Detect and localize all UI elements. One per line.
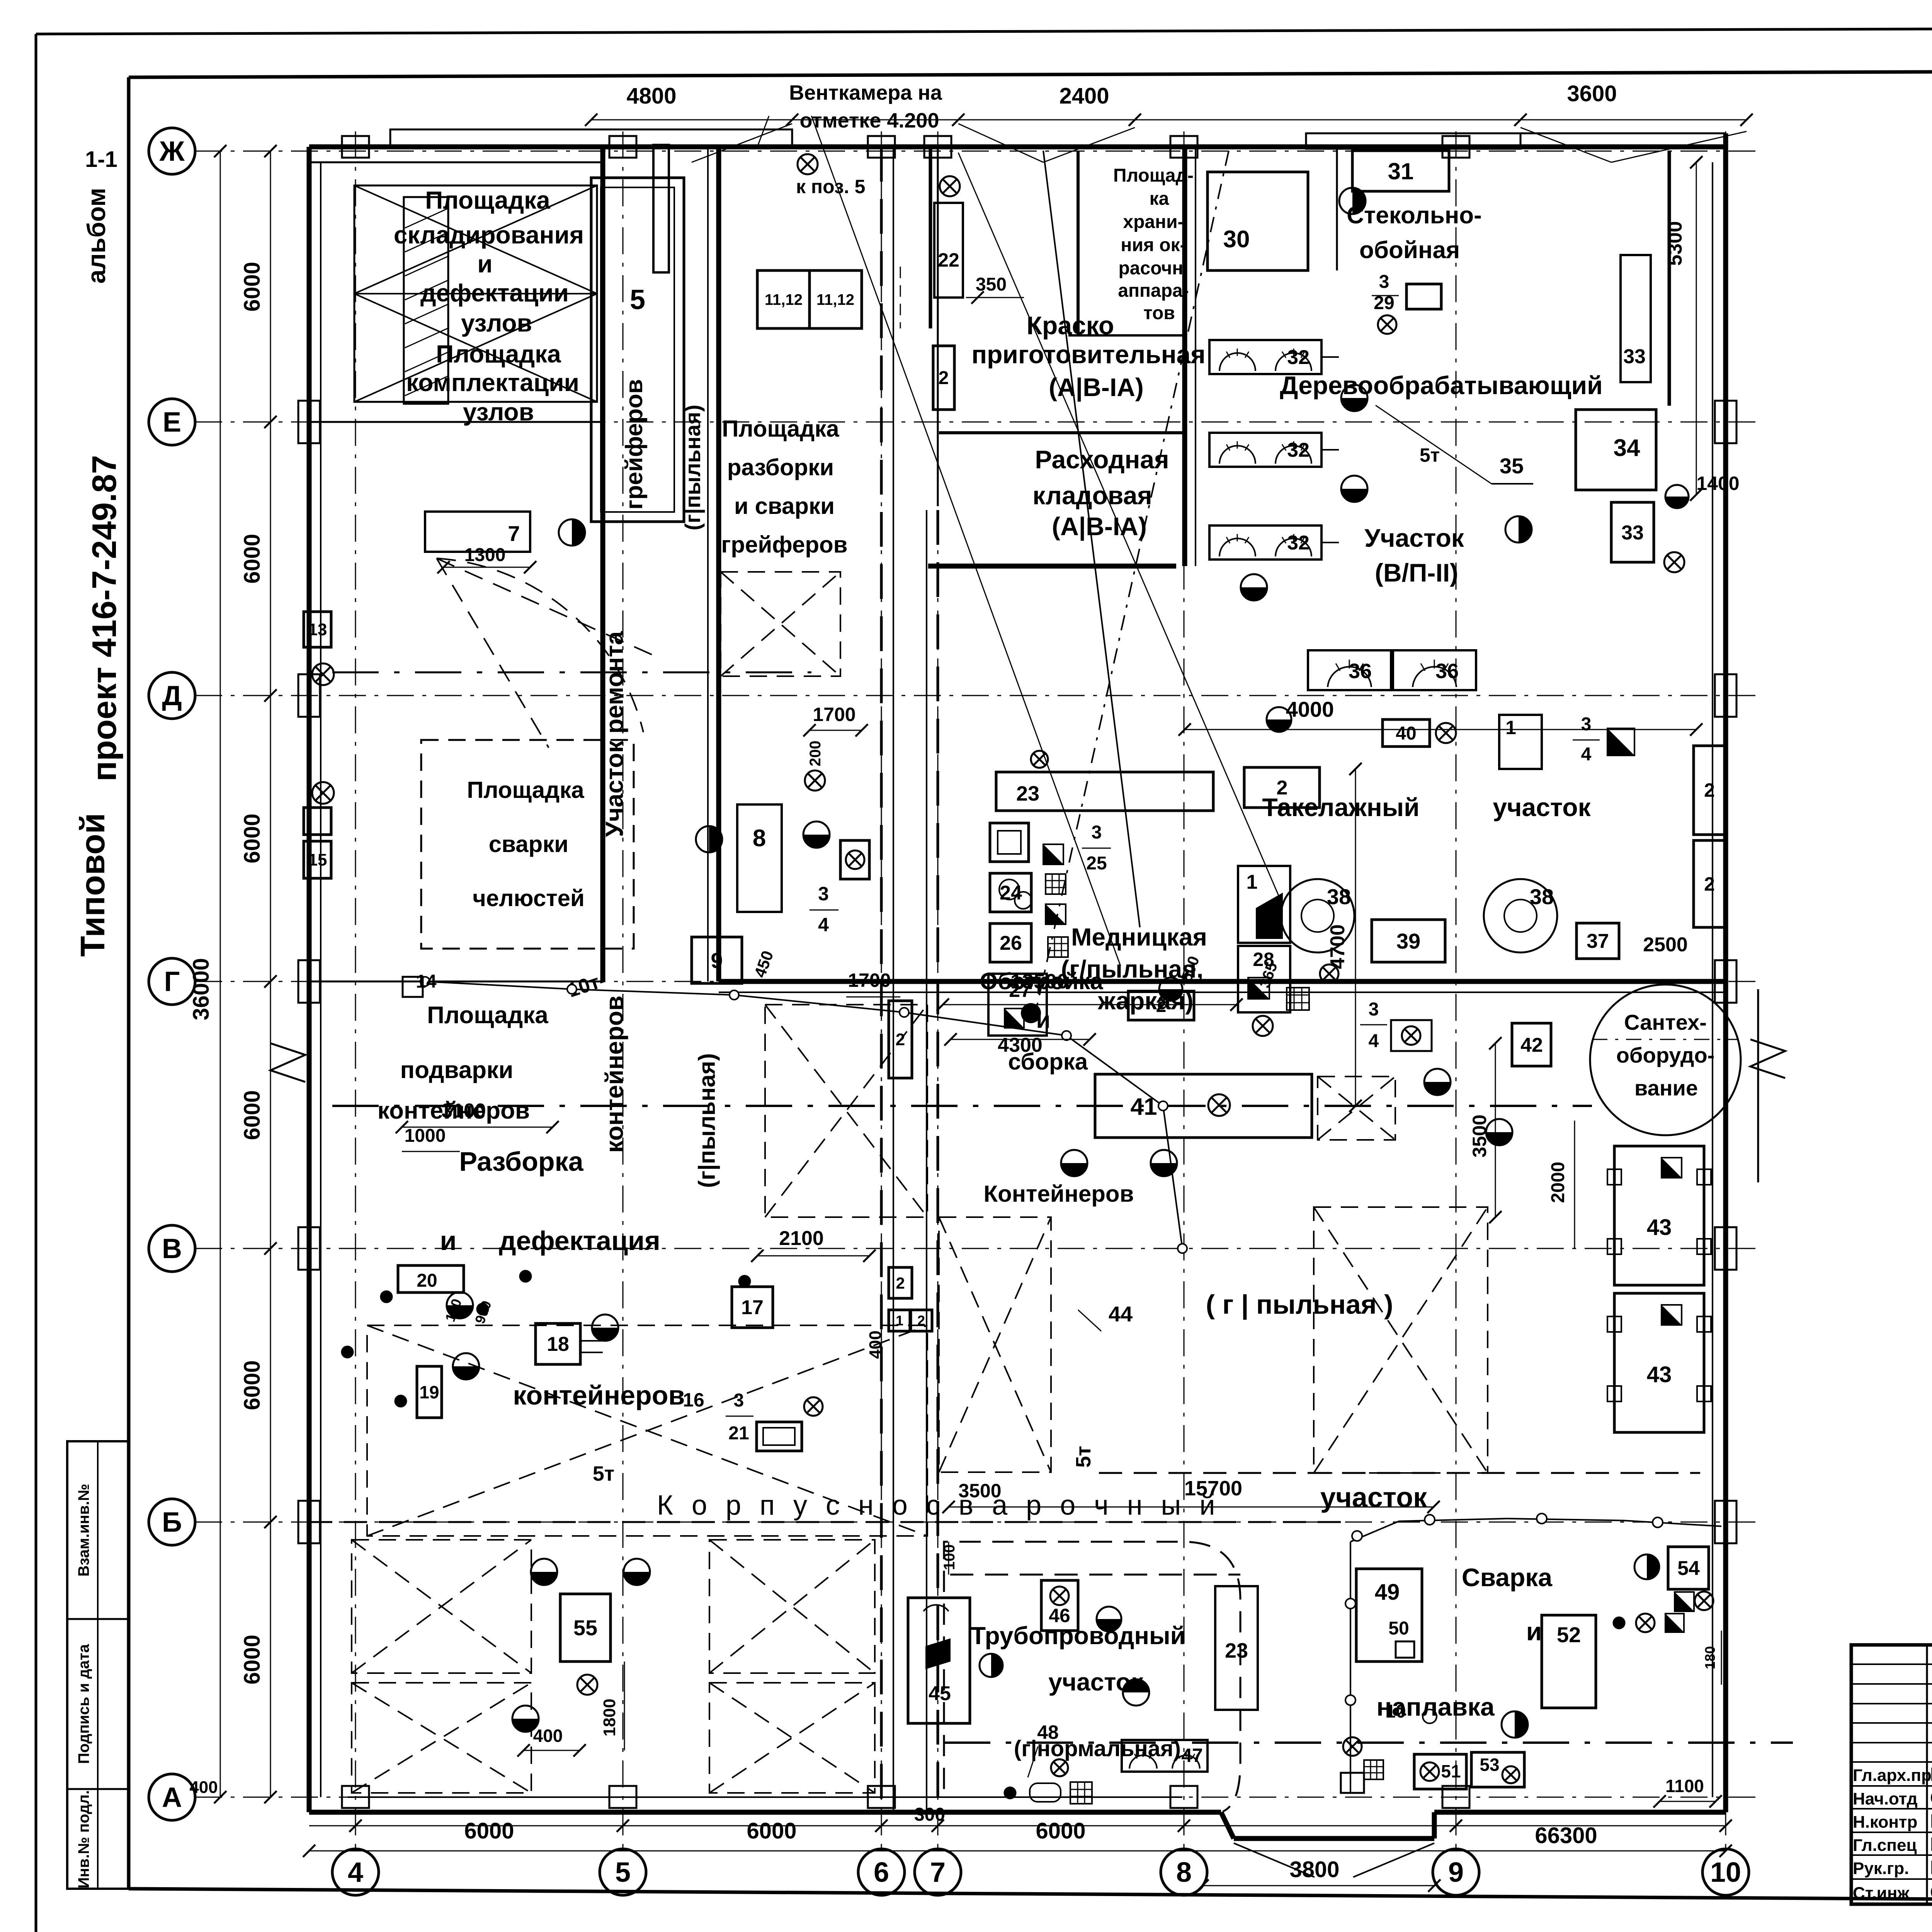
svg-text:44: 44 bbox=[1109, 1302, 1133, 1326]
svg-text:36: 36 bbox=[1435, 660, 1459, 683]
svg-text:23: 23 bbox=[1016, 782, 1039, 805]
svg-text:10: 10 bbox=[1385, 1701, 1406, 1722]
svg-text:3: 3 bbox=[734, 1390, 744, 1411]
svg-text:15: 15 bbox=[308, 850, 327, 869]
svg-text:2: 2 bbox=[939, 368, 949, 388]
svg-text:узлов: узлов bbox=[461, 309, 532, 337]
svg-text:9: 9 bbox=[1448, 1857, 1464, 1888]
svg-text:(А|В-IА): (А|В-IА) bbox=[1049, 373, 1144, 402]
svg-text:Г: Г bbox=[164, 966, 180, 997]
svg-text:и сварки: и сварки bbox=[734, 493, 835, 519]
svg-text:Краско: Краско bbox=[1027, 311, 1114, 340]
svg-text:6000: 6000 bbox=[240, 813, 265, 863]
svg-text:4: 4 bbox=[348, 1857, 363, 1888]
svg-text:1700: 1700 bbox=[813, 704, 855, 725]
svg-text:Вожжаев: Вожжаев bbox=[1930, 1857, 1932, 1878]
svg-text:1: 1 bbox=[1505, 717, 1516, 738]
svg-text:4: 4 bbox=[1369, 1031, 1379, 1051]
svg-text:Ст.инж: Ст.инж bbox=[1853, 1884, 1910, 1903]
svg-text:5: 5 bbox=[630, 284, 645, 315]
svg-text:6: 6 bbox=[874, 1857, 889, 1888]
svg-text:сварки: сварки bbox=[489, 831, 568, 857]
svg-text:200: 200 bbox=[807, 741, 824, 767]
svg-text:Площадка: Площадка bbox=[436, 340, 561, 368]
svg-text:(г|пыльная): (г|пыльная) bbox=[694, 1053, 720, 1188]
svg-text:1000: 1000 bbox=[405, 1126, 446, 1146]
svg-text:и: и bbox=[440, 1226, 456, 1256]
svg-text:Павлов: Павлов bbox=[1930, 1833, 1932, 1855]
svg-text:9: 9 bbox=[711, 948, 723, 973]
svg-text:7: 7 bbox=[508, 521, 520, 546]
svg-text:и: и bbox=[477, 250, 492, 278]
svg-text:2400: 2400 bbox=[1059, 83, 1109, 109]
svg-text:33: 33 bbox=[1623, 345, 1646, 368]
svg-text:53: 53 bbox=[1480, 1755, 1499, 1775]
svg-text:проект 416-7-249.87: проект 416-7-249.87 bbox=[85, 455, 123, 782]
svg-text:обойная: обойная bbox=[1359, 237, 1460, 264]
svg-text:4: 4 bbox=[818, 914, 829, 935]
svg-text:47: 47 bbox=[1181, 1745, 1203, 1766]
svg-text:41: 41 bbox=[1131, 1094, 1157, 1120]
svg-text:49: 49 bbox=[1375, 1580, 1400, 1605]
svg-text:38: 38 bbox=[1530, 884, 1554, 909]
svg-text:32: 32 bbox=[1287, 346, 1310, 369]
svg-text:Гл.спец: Гл.спец bbox=[1853, 1836, 1917, 1855]
svg-text:26: 26 bbox=[1000, 932, 1022, 954]
svg-text:1100: 1100 bbox=[1665, 1776, 1704, 1796]
svg-text:4: 4 bbox=[1581, 744, 1592, 765]
svg-text:43: 43 bbox=[1647, 1362, 1672, 1387]
svg-text:3: 3 bbox=[1092, 822, 1102, 843]
svg-text:Нач.отд: Нач.отд bbox=[1853, 1789, 1918, 1808]
svg-text:2: 2 bbox=[1156, 996, 1167, 1016]
svg-text:5т: 5т bbox=[1420, 444, 1440, 466]
svg-text:37: 37 bbox=[1587, 930, 1609, 952]
svg-text:14: 14 bbox=[416, 971, 437, 992]
svg-text:25: 25 bbox=[1086, 853, 1107, 874]
svg-text:храни-: храни- bbox=[1123, 212, 1184, 232]
svg-text:13: 13 bbox=[308, 620, 327, 639]
svg-text:2: 2 bbox=[917, 1313, 925, 1328]
svg-text:38: 38 bbox=[1327, 884, 1351, 909]
svg-text:7: 7 bbox=[930, 1857, 946, 1888]
svg-text:2: 2 bbox=[896, 1030, 905, 1049]
svg-text:19: 19 bbox=[419, 1382, 439, 1402]
svg-text:(А|В-IА): (А|В-IА) bbox=[1052, 512, 1147, 541]
svg-text:челюстей: челюстей bbox=[473, 885, 585, 911]
svg-text:36000: 36000 bbox=[189, 958, 214, 1020]
svg-text:21: 21 bbox=[728, 1423, 749, 1444]
svg-text:1800: 1800 bbox=[600, 1699, 619, 1736]
svg-text:Площад-: Площад- bbox=[1113, 165, 1194, 186]
svg-text:42: 42 bbox=[1520, 1034, 1543, 1056]
svg-text:Контейнеров: Контейнеров bbox=[984, 1181, 1134, 1207]
svg-text:6000: 6000 bbox=[240, 262, 265, 311]
svg-text:Б: Б bbox=[162, 1507, 182, 1538]
svg-text:Козьяков: Козьяков bbox=[1930, 1764, 1932, 1785]
svg-text:расочн.: расочн. bbox=[1118, 258, 1188, 279]
svg-text:4700: 4700 bbox=[1327, 924, 1349, 969]
svg-text:6000: 6000 bbox=[240, 534, 265, 583]
svg-text:11,12: 11,12 bbox=[765, 291, 803, 308]
svg-text:6000: 6000 bbox=[240, 1090, 265, 1140]
svg-text:48: 48 bbox=[1037, 1721, 1059, 1743]
svg-text:66300: 66300 bbox=[1535, 1823, 1597, 1848]
svg-text:1: 1 bbox=[1247, 871, 1258, 893]
svg-text:К о р п у с н о с в а р о ч н: К о р п у с н о с в а р о ч н ы й bbox=[657, 1490, 1221, 1521]
svg-text:Соколова: Соколова bbox=[1930, 1881, 1932, 1903]
svg-text:20: 20 bbox=[417, 1270, 437, 1291]
svg-text:50: 50 bbox=[1388, 1618, 1409, 1639]
svg-text:отметке 4.200: отметке 4.200 bbox=[800, 109, 939, 132]
svg-text:4300: 4300 bbox=[998, 1034, 1043, 1056]
svg-text:46: 46 bbox=[1049, 1605, 1070, 1626]
svg-text:Разборка: Разборка bbox=[459, 1146, 583, 1177]
svg-text:2: 2 bbox=[1704, 779, 1715, 801]
svg-text:4800: 4800 bbox=[626, 83, 676, 109]
svg-text:3: 3 bbox=[1379, 272, 1389, 292]
svg-text:2100: 2100 bbox=[779, 1227, 824, 1250]
svg-text:Гл.арх.пр: Гл.арх.пр bbox=[1853, 1766, 1932, 1785]
svg-text:35: 35 bbox=[1500, 454, 1524, 478]
svg-text:3100: 3100 bbox=[441, 1100, 486, 1122]
svg-text:10: 10 bbox=[1710, 1857, 1741, 1888]
svg-text:грейферов: грейферов bbox=[721, 532, 847, 558]
svg-text:( г | пыльная ): ( г | пыльная ) bbox=[1206, 1289, 1393, 1320]
svg-text:(В/П-II): (В/П-II) bbox=[1375, 558, 1458, 587]
svg-text:5300: 5300 bbox=[1664, 221, 1686, 266]
svg-text:23: 23 bbox=[1225, 1639, 1248, 1662]
svg-text:Участок: Участок bbox=[1364, 524, 1464, 552]
svg-text:31: 31 bbox=[1388, 158, 1414, 184]
svg-text:22: 22 bbox=[938, 249, 959, 271]
svg-text:8: 8 bbox=[753, 825, 766, 852]
svg-text:52: 52 bbox=[1557, 1622, 1581, 1647]
svg-text:Сысоев: Сысоев bbox=[1930, 1787, 1932, 1809]
svg-text:4000: 4000 bbox=[1286, 697, 1334, 721]
svg-text:контейнеров: контейнеров bbox=[513, 1380, 685, 1410]
svg-text:400: 400 bbox=[533, 1726, 563, 1746]
svg-text:грейферов: грейферов bbox=[621, 379, 648, 510]
svg-text:3: 3 bbox=[1581, 714, 1592, 735]
svg-text:подварки: подварки bbox=[400, 1057, 514, 1083]
svg-text:6000: 6000 bbox=[464, 1818, 514, 1844]
svg-text:55: 55 bbox=[573, 1616, 597, 1640]
svg-text:3500: 3500 bbox=[1469, 1114, 1490, 1157]
svg-text:приготовительная: приготовительная bbox=[971, 340, 1206, 369]
svg-text:участок: участок bbox=[1320, 1482, 1427, 1513]
svg-text:контейнеров: контейнеров bbox=[600, 996, 628, 1153]
svg-text:Сантех-: Сантех- bbox=[1624, 1010, 1707, 1034]
svg-text:5т: 5т bbox=[593, 1462, 614, 1485]
svg-text:2: 2 bbox=[896, 1274, 905, 1292]
svg-text:350: 350 bbox=[976, 274, 1007, 295]
svg-text:36: 36 bbox=[1349, 660, 1372, 683]
svg-text:Типовой: Типовой bbox=[73, 813, 112, 957]
svg-text:29: 29 bbox=[1374, 293, 1394, 313]
svg-text:2500: 2500 bbox=[1643, 934, 1688, 956]
svg-text:18: 18 bbox=[547, 1333, 569, 1355]
svg-text:34: 34 bbox=[1614, 435, 1640, 461]
svg-text:Н.контр: Н.контр bbox=[1853, 1813, 1917, 1832]
svg-text:тов: тов bbox=[1143, 303, 1175, 323]
svg-text:1700: 1700 bbox=[848, 969, 891, 991]
svg-text:кладовая: кладовая bbox=[1032, 481, 1152, 510]
svg-text:Взам.инв.№: Взам.инв.№ bbox=[75, 1484, 92, 1577]
svg-text:3: 3 bbox=[1369, 999, 1379, 1020]
svg-text:54: 54 bbox=[1677, 1557, 1700, 1580]
svg-text:участок: участок bbox=[1493, 793, 1591, 821]
svg-text:30: 30 bbox=[1223, 226, 1250, 253]
svg-text:51: 51 bbox=[1441, 1761, 1461, 1781]
svg-text:А: А bbox=[162, 1782, 182, 1813]
svg-text:33: 33 bbox=[1621, 522, 1644, 544]
svg-text:6000: 6000 bbox=[240, 1360, 265, 1410]
svg-text:Площадка: Площадка bbox=[427, 1002, 548, 1029]
svg-text:2000: 2000 bbox=[1548, 1162, 1568, 1203]
svg-text:ния ок-: ния ок- bbox=[1121, 235, 1186, 255]
svg-text:Деревообрабатывающий: Деревообрабатывающий bbox=[1280, 371, 1602, 400]
svg-text:45: 45 bbox=[929, 1682, 951, 1705]
svg-text:11,12: 11,12 bbox=[816, 291, 854, 308]
svg-text:разборки: разборки bbox=[727, 454, 834, 480]
svg-text:Инв.№ подл.: Инв.№ подл. bbox=[75, 1790, 92, 1888]
svg-text:1400: 1400 bbox=[1696, 473, 1739, 494]
svg-text:В: В bbox=[162, 1233, 182, 1264]
svg-text:6000: 6000 bbox=[240, 1634, 265, 1684]
svg-text:6000: 6000 bbox=[1036, 1818, 1085, 1844]
svg-text:1300: 1300 bbox=[464, 545, 506, 565]
svg-text:Площадка: Площадка bbox=[425, 186, 550, 214]
svg-text:2: 2 bbox=[1277, 777, 1288, 799]
svg-text:оборудо-: оборудо- bbox=[1616, 1043, 1715, 1067]
svg-text:43: 43 bbox=[1647, 1215, 1672, 1240]
svg-text:17: 17 bbox=[741, 1296, 764, 1319]
svg-text:Площадка: Площадка bbox=[722, 416, 839, 442]
svg-text:Подпись и дата: Подпись и дата bbox=[75, 1644, 92, 1764]
svg-text:ка: ка bbox=[1150, 189, 1169, 209]
svg-text:16: 16 bbox=[683, 1389, 704, 1411]
svg-text:400: 400 bbox=[866, 1330, 885, 1359]
svg-text:Участок ремонта: Участок ремонта bbox=[600, 631, 628, 837]
svg-text:2: 2 bbox=[1704, 873, 1715, 895]
svg-text:и: и bbox=[1526, 1617, 1542, 1646]
svg-text:Площадка: Площадка bbox=[467, 777, 584, 803]
svg-text:Медницкая: Медницкая bbox=[1071, 923, 1207, 951]
svg-text:5: 5 bbox=[615, 1857, 631, 1888]
svg-text:32: 32 bbox=[1287, 439, 1310, 461]
svg-text:Расходная: Расходная bbox=[1035, 445, 1169, 474]
svg-text:Стекольно-: Стекольно- bbox=[1347, 202, 1482, 229]
svg-text:6000: 6000 bbox=[747, 1818, 796, 1844]
svg-text:Рук.гр.: Рук.гр. bbox=[1853, 1859, 1909, 1878]
svg-text:Николаев: Николаев bbox=[1930, 1810, 1932, 1832]
svg-text:3: 3 bbox=[818, 883, 829, 905]
svg-text:к поз. 5: к поз. 5 bbox=[796, 176, 865, 197]
svg-text:39: 39 bbox=[1396, 929, 1420, 953]
svg-text:вание: вание bbox=[1634, 1076, 1698, 1100]
svg-text:аппара-: аппара- bbox=[1118, 281, 1189, 301]
svg-text:Ж: Ж bbox=[159, 136, 185, 167]
svg-text:180: 180 bbox=[1702, 1646, 1718, 1669]
svg-text:28: 28 bbox=[1253, 949, 1274, 970]
svg-text:Венткамера на: Венткамера на bbox=[789, 81, 942, 104]
svg-text:13500: 13500 bbox=[1010, 970, 1068, 993]
svg-text:8: 8 bbox=[1176, 1857, 1192, 1888]
svg-text:Е: Е bbox=[163, 407, 181, 438]
svg-text:1: 1 bbox=[896, 1313, 903, 1328]
svg-text:400: 400 bbox=[189, 1778, 218, 1797]
svg-text:32: 32 bbox=[1287, 532, 1310, 554]
svg-text:дефектация: дефектация bbox=[499, 1226, 660, 1256]
svg-text:5т: 5т bbox=[1072, 1446, 1095, 1468]
svg-text:40: 40 bbox=[1396, 723, 1416, 744]
svg-text:Сварка: Сварка bbox=[1462, 1563, 1553, 1592]
svg-text:альбом: альбом bbox=[82, 188, 111, 284]
svg-text:Д: Д bbox=[162, 680, 182, 711]
svg-text:3500: 3500 bbox=[958, 1480, 1001, 1502]
svg-text:3600: 3600 bbox=[1567, 81, 1617, 106]
svg-text:1-1: 1-1 bbox=[85, 147, 117, 172]
svg-text:15700: 15700 bbox=[1184, 1477, 1242, 1500]
